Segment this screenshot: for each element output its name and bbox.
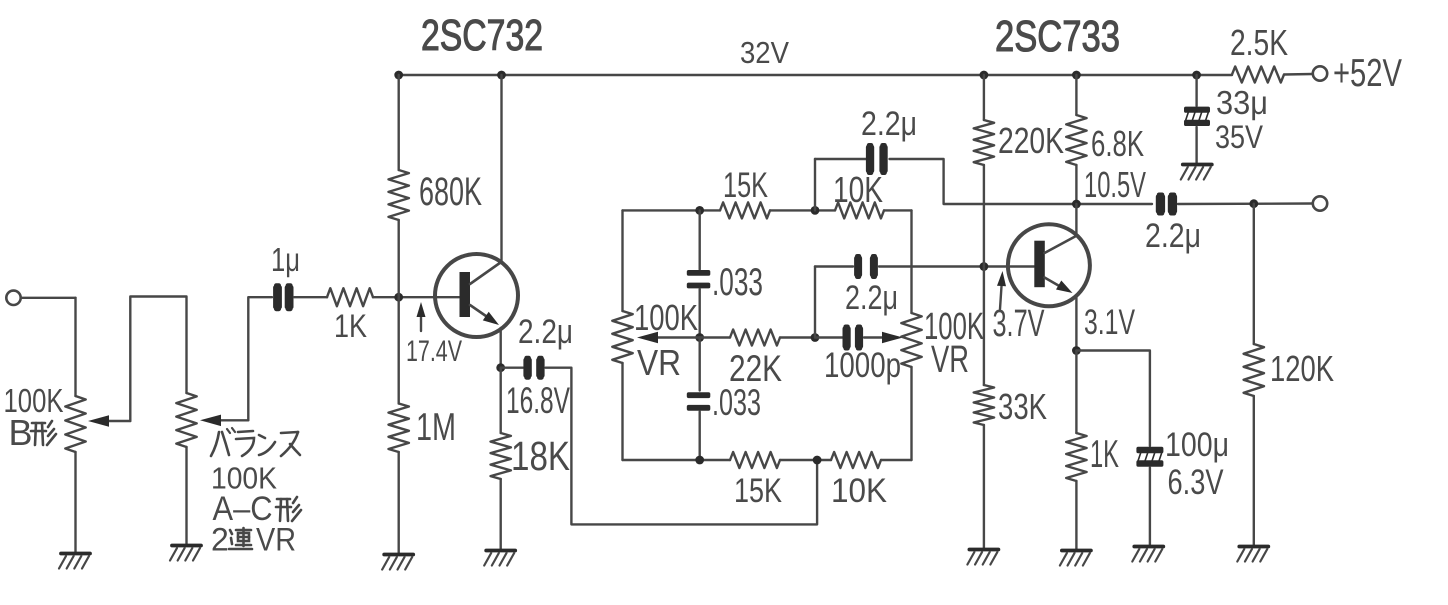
svg-text:.033: .033 — [712, 261, 763, 304]
label 16.8V — [506, 380, 570, 421]
wire Q1 base node to 1M — [398, 297, 400, 403]
terminal input — [6, 291, 20, 305]
capacitor 2.2u (Q1 emitter coupling) — [523, 356, 544, 380]
svg-text:.033: .033 — [712, 382, 761, 423]
wire Q2 base node to 33K — [983, 267, 985, 386]
wire .033 column upper — [699, 210, 701, 269]
svg-text:10K: 10K — [833, 169, 883, 210]
wire node to 1000p — [815, 336, 843, 338]
resistor 2.5K — [1232, 67, 1284, 83]
label 100K (volume) — [4, 382, 64, 419]
svg-text:VR: VR — [931, 339, 969, 381]
junction top rail / Q1 collector — [497, 71, 506, 80]
label 3.7V with arrow — [993, 271, 1045, 345]
wire 2.5K to +52V terminal — [1284, 73, 1313, 76]
terminal output — [1313, 196, 1327, 210]
svg-text:15K: 15K — [734, 472, 782, 510]
label VR (bass) — [637, 342, 681, 383]
wire tone left rail upper — [621, 210, 623, 311]
resistor 1K (Q2 emitter) — [1066, 433, 1086, 481]
wire 33u to ground — [1195, 127, 1197, 164]
resistor 6.8K — [1066, 115, 1086, 165]
capacitor .033 (upper) — [687, 270, 711, 288]
wire 1K to ground — [1075, 481, 1077, 550]
capacitor 1000p — [843, 325, 864, 351]
potentiometer 100K VR (bass) — [612, 311, 632, 363]
wire mid node to 22K — [700, 336, 730, 338]
wire 32V supply rail — [399, 74, 1232, 76]
label 33u — [1216, 84, 1268, 121]
resistor 15K (bottom) — [730, 452, 780, 468]
resistor 1K (input) — [327, 288, 373, 306]
wire emitter node to 18K — [500, 368, 502, 433]
capacitor 100u (emitter bypass) — [1136, 447, 1163, 467]
label 120K — [1270, 348, 1334, 389]
svg-text:3.7V: 3.7V — [993, 303, 1045, 345]
label 100K (bass VR) — [634, 297, 698, 338]
svg-text:18K: 18K — [511, 433, 570, 479]
wire tone network bottom rail — [623, 459, 912, 461]
wire C 2.2u to Q2 base — [879, 265, 1034, 267]
capacitor 2.2u (Q2 base coupling) — [854, 254, 878, 279]
resistor 22K — [730, 330, 780, 346]
terminal +52V — [1313, 66, 1327, 80]
wiper arrow balance pot — [200, 415, 248, 427]
ground 1M — [382, 555, 413, 570]
svg-text:1K: 1K — [334, 308, 367, 344]
junction Q2 base / bias divider — [980, 262, 989, 271]
label 15K (top) — [723, 166, 768, 205]
resistor 120K — [1244, 344, 1264, 396]
svg-text:1K: 1K — [1090, 433, 1119, 476]
svg-text:6.8K: 6.8K — [1091, 123, 1144, 164]
junction Q1 emitter node — [496, 363, 505, 372]
wire tone right rail lower — [910, 367, 912, 460]
junction 22K / 1000p / 2.2u node — [811, 333, 820, 342]
label 2SC733 — [995, 12, 1120, 61]
ground 120K — [1237, 547, 1268, 562]
wire tone left rail lower — [621, 363, 623, 460]
svg-text:6.3V: 6.3V — [1168, 463, 1225, 502]
svg-text:1000p: 1000p — [824, 346, 901, 385]
label 22K — [729, 348, 782, 389]
svg-text:35V: 35V — [1215, 119, 1264, 155]
junction tone mid node (bass wiper) — [695, 333, 704, 342]
wire 220K to Q2 base node — [983, 165, 985, 267]
resistor 220K — [974, 120, 994, 165]
wire balance wiper to C 1u — [248, 297, 272, 420]
label 2.5K — [1230, 22, 1288, 63]
label 100K (balance) — [211, 461, 277, 496]
wire rail to 220K — [983, 75, 985, 120]
capacitor 1u — [273, 283, 293, 311]
junction bottom rail / .033 column — [695, 456, 704, 465]
potentiometer 100K B (volume) — [65, 396, 85, 452]
label 1u — [271, 241, 300, 278]
label 15K (bottom) — [734, 472, 782, 510]
wire .033 lower to bottom rail — [699, 412, 701, 461]
junction top rail / 6.8K — [1072, 71, 1081, 80]
resistor 680K — [389, 170, 409, 220]
label +52V — [1333, 52, 1402, 95]
wire 22K to 1000p node — [780, 336, 815, 338]
svg-text:100K: 100K — [634, 297, 698, 338]
svg-text:33K: 33K — [998, 386, 1047, 427]
junction top rail / feedback 2.2u — [811, 206, 820, 215]
ground 33K — [967, 550, 998, 565]
wire emitter node to 100u — [1076, 351, 1150, 447]
wire rail to 33u — [1195, 75, 1197, 106]
junction Q2 emitter node — [1072, 346, 1081, 355]
junction top rail / 220K — [980, 71, 989, 80]
svg-text:1M: 1M — [416, 406, 456, 449]
label 2.2u (feedback) — [861, 105, 917, 143]
resistor 1M — [389, 404, 409, 453]
ground 33u — [1181, 165, 1212, 180]
wire tone network top rail — [623, 209, 912, 211]
label 18K — [511, 433, 570, 479]
label 6.3V — [1168, 463, 1225, 502]
junction output / 120K — [1249, 199, 1258, 208]
wire C 2.2u to tone network bottom — [546, 368, 818, 525]
label B形 — [9, 412, 57, 453]
label 100K (treble VR) — [924, 306, 984, 348]
junction top rail / 33u decoupling — [1192, 71, 1201, 80]
label バランス — [211, 428, 300, 456]
svg-text:33μ: 33μ — [1216, 84, 1268, 121]
resistor 6.8K leads — [1075, 75, 1077, 204]
wiper arrow volume pot — [88, 415, 130, 427]
wire 18K to ground — [500, 479, 502, 550]
wire .033 column lower — [699, 338, 701, 391]
wire emitter node to 1K — [1075, 351, 1077, 434]
label 1000p — [824, 346, 901, 385]
wire input to volume pot — [21, 298, 76, 396]
capacitor .033 (lower) — [687, 392, 711, 410]
junction top rail / .033 column — [695, 206, 704, 215]
svg-text:15K: 15K — [723, 166, 768, 205]
ground 18K — [484, 551, 515, 566]
wire balance pot to ground — [185, 447, 187, 545]
wire collector node to Q2 — [1075, 204, 1077, 236]
svg-text:VR: VR — [256, 522, 296, 558]
transistor Q2 2SC733 — [1008, 224, 1090, 306]
svg-text:B: B — [9, 412, 33, 453]
capacitor 2.2u (output) — [1156, 193, 1177, 216]
resistor 10K (bottom) — [831, 452, 881, 468]
junction Q2 collector node — [1072, 200, 1081, 209]
wire 33K to ground — [983, 425, 985, 549]
potentiometer balance 100K — [176, 393, 196, 447]
junction bottom rail / feedback wire — [813, 456, 822, 465]
resistor 10K (top) — [835, 202, 884, 218]
label A-C形 — [213, 490, 302, 528]
label 10K (bottom) — [831, 472, 887, 510]
junction Q1 base / bias divider — [394, 293, 403, 302]
label 17.4V with arrow — [406, 302, 462, 368]
potentiometer 100K VR (treble) — [901, 313, 921, 367]
svg-text:17.4V: 17.4V — [406, 335, 462, 368]
label 680K — [419, 170, 482, 214]
wire 1M to ground — [398, 452, 400, 554]
label 6.8K — [1091, 123, 1144, 164]
svg-text:220K: 220K — [998, 120, 1064, 161]
wire Q1 emitter down — [500, 328, 502, 368]
capacitor 2.2u (feedback) — [866, 143, 888, 175]
label 220K — [998, 120, 1064, 161]
label 35V — [1215, 119, 1264, 155]
label 1K (input) — [334, 308, 367, 344]
svg-text:2.2μ: 2.2μ — [845, 279, 898, 317]
svg-text:16.8V: 16.8V — [506, 380, 570, 421]
wire node to feedback C 2.2u — [815, 159, 866, 210]
wire 120K to ground — [1253, 396, 1255, 546]
svg-text:2.5K: 2.5K — [1230, 22, 1288, 63]
label 1K (Q2 emitter) — [1090, 433, 1119, 476]
wire .033 upper to mid node — [699, 289, 701, 338]
label 1M — [416, 406, 456, 449]
label .033 (lower) — [712, 382, 761, 423]
svg-text:120K: 120K — [1270, 348, 1334, 389]
wire tone right rail upper — [910, 210, 912, 313]
wire output C to terminal — [1178, 202, 1313, 205]
svg-text:2SC732: 2SC732 — [421, 11, 543, 60]
resistor 15K (top) — [720, 202, 770, 218]
label 2.2u (Q2 base) — [845, 279, 898, 317]
svg-text:2.2μ: 2.2μ — [1145, 217, 1201, 255]
svg-text:1μ: 1μ — [271, 241, 300, 278]
svg-text:680K: 680K — [419, 170, 482, 214]
label 10K (top) — [833, 169, 883, 210]
wire volume pot to ground — [74, 452, 76, 553]
svg-text:32V: 32V — [740, 35, 789, 70]
label 100u — [1165, 426, 1229, 464]
label 2.2u (output) — [1145, 217, 1201, 255]
label 32V — [740, 35, 789, 70]
label 2.2u (Q1 emitter) — [518, 313, 573, 351]
label 33K — [998, 386, 1047, 427]
resistor 33K — [974, 385, 994, 425]
label 10.5V — [1084, 164, 1146, 205]
capacitor 33u (supply decoupling) — [1184, 107, 1210, 126]
svg-text:10K: 10K — [831, 472, 887, 510]
wire tone node to C 2.2u (base) — [815, 267, 853, 338]
ground 100u — [1132, 547, 1163, 562]
label 2SC732 — [421, 11, 543, 60]
ground volume pot — [59, 554, 90, 569]
wire 100u to ground — [1149, 468, 1151, 547]
transistor Q1 2SC732 — [435, 254, 518, 337]
wire Q1 collector to rail — [500, 75, 502, 262]
wire volume wiper to balance pot — [130, 297, 186, 422]
wire feedback C to output node — [890, 159, 1153, 204]
svg-text:2: 2 — [211, 522, 229, 558]
label VR (treble) — [931, 339, 969, 381]
wire Q2 emitter down — [1075, 296, 1077, 351]
ground 1K — [1060, 551, 1091, 566]
label .033 (upper) — [712, 261, 763, 304]
wire emitter node to C 2.2u — [501, 367, 523, 369]
wire output node to 120K — [1253, 204, 1255, 344]
wire 680K to Q1 base node — [398, 220, 400, 297]
wire R 1K to Q1 base — [373, 296, 459, 298]
wiper arrow treble VR — [864, 332, 903, 343]
svg-text:10.5V: 10.5V — [1084, 164, 1146, 205]
wire C 1u to R 1K — [294, 296, 327, 298]
wire rail to 680K — [398, 75, 400, 170]
resistor 18K — [491, 433, 511, 479]
junction top rail / 680K — [394, 71, 403, 80]
svg-text:+52V: +52V — [1333, 52, 1402, 95]
svg-text:2.2μ: 2.2μ — [518, 313, 573, 351]
label 3.1V — [1084, 303, 1135, 342]
svg-text:100μ: 100μ — [1165, 426, 1229, 464]
label 2連VR — [211, 522, 296, 558]
svg-text:2.2μ: 2.2μ — [861, 105, 917, 143]
svg-text:2SC733: 2SC733 — [995, 12, 1120, 61]
svg-text:VR: VR — [637, 342, 681, 383]
ground balance pot — [170, 546, 201, 561]
wiper arrow bass VR — [637, 332, 700, 343]
svg-text:3.1V: 3.1V — [1084, 303, 1135, 342]
